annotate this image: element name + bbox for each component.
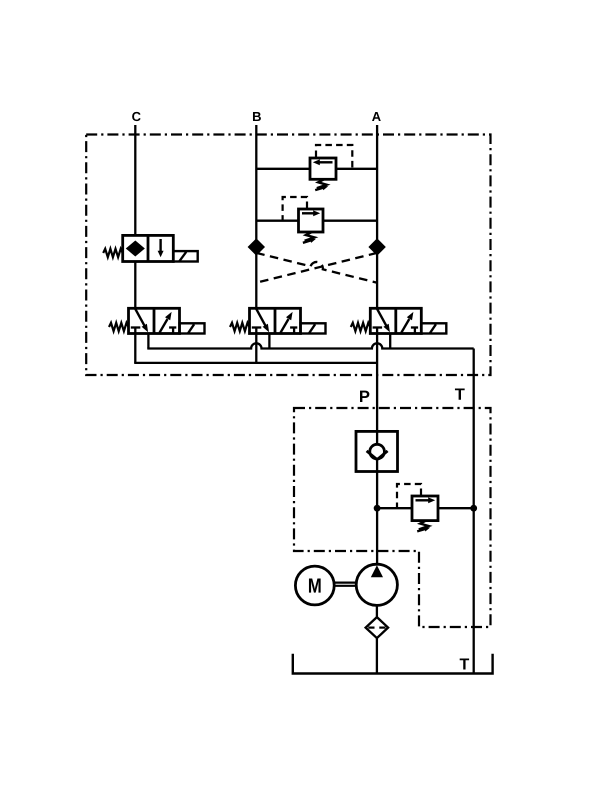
pilot line (dashed) from A check to B line — [256, 253, 377, 283]
node label A — [372, 112, 381, 121]
wire valve2 left port to P bus — [255, 334, 257, 363]
node label T (top) — [455, 388, 465, 399]
valve block enclosure (dash-dot) — [86, 135, 490, 376]
pilot line (dashed) system relief — [397, 484, 421, 508]
node label P — [360, 391, 369, 402]
electric motor M — [295, 566, 334, 605]
tank (reservoir) — [293, 654, 493, 674]
relief valve A-to-B — [299, 209, 324, 243]
wire P bus (lower horizontal) — [134, 362, 377, 364]
relief valve B-to-A — [310, 158, 336, 190]
wire line B — [255, 125, 257, 308]
wire T line vertical — [473, 349, 475, 674]
coupling shaft — [335, 581, 357, 583]
wire valve1 right port down — [147, 334, 149, 349]
power unit enclosure (dash-dot L-shape) — [294, 408, 491, 627]
wire line A — [376, 125, 378, 308]
wire relief line B-A lower — [256, 220, 298, 222]
wire line C — [134, 125, 136, 235]
wire line C lower — [134, 262, 136, 309]
suction filter — [366, 617, 389, 638]
check valve (in square housing) on P — [356, 431, 398, 471]
wire relief valve to T line — [438, 507, 474, 509]
node label C — [132, 112, 141, 121]
pilot line (dashed) from B check to A line, with crossover jump — [256, 253, 377, 283]
wire P junction to relief valve — [377, 507, 412, 509]
wire T bus (upper horizontal with jumps) — [147, 343, 473, 348]
pilot line (dashed) relief A-to-B — [283, 197, 307, 221]
valve 1 (line C) 3/2 solenoid valve — [109, 308, 205, 333]
wire P line mid — [376, 459, 378, 564]
wire filter to tank — [376, 638, 378, 673]
valve 2 (line B) 3/2 solenoid valve — [230, 308, 326, 333]
junction P/relief — [374, 505, 381, 512]
wire relief line B-A upper — [256, 168, 310, 170]
pilot line (dashed) relief B-to-A — [316, 145, 352, 169]
node label T (tank) — [460, 658, 469, 669]
2/2 solenoid valve with check on line C — [103, 235, 198, 261]
hydraulic pump — [356, 564, 397, 605]
valve 3 (line A) 3/2 solenoid valve — [351, 308, 447, 333]
junction T/relief — [470, 505, 477, 512]
wire P line upper — [376, 334, 378, 445]
wire pump to filter — [376, 605, 378, 617]
wire valve1 left port to P bus — [134, 334, 136, 363]
pilot-operated check valve on A (diamond) — [370, 240, 385, 255]
wire valve2 right port to T bus — [268, 334, 270, 349]
node label B — [253, 112, 261, 121]
pilot-operated check valve on B (diamond) — [249, 240, 264, 255]
wire valve3 right port to T bus — [389, 334, 391, 349]
system relief valve — [412, 496, 438, 532]
